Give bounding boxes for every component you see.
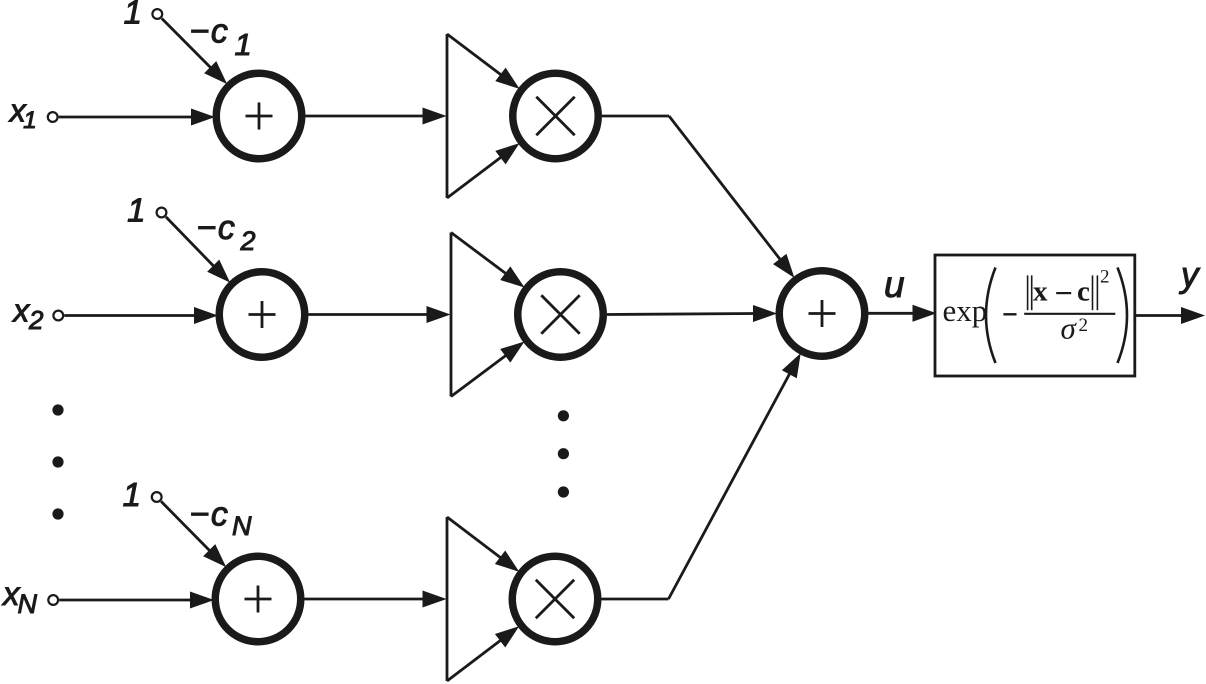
svg-text:1: 1 xyxy=(123,476,141,513)
svg-text:N: N xyxy=(18,589,38,619)
svg-text:−c: −c xyxy=(190,13,230,51)
svg-text:−c: −c xyxy=(190,496,230,534)
svg-text:x: x xyxy=(1033,276,1048,308)
svg-text:1: 1 xyxy=(124,0,142,31)
svg-text:x: x xyxy=(11,292,30,328)
svg-text:exp: exp xyxy=(943,293,988,328)
svg-text:2: 2 xyxy=(1100,267,1110,288)
svg-text:1: 1 xyxy=(23,107,37,134)
svg-text:σ: σ xyxy=(1061,311,1078,346)
svg-text:N: N xyxy=(232,511,252,541)
svg-text:2: 2 xyxy=(240,226,256,256)
svg-text:1: 1 xyxy=(235,27,252,62)
svg-text:−c: −c xyxy=(197,209,237,247)
svg-text:2: 2 xyxy=(1079,315,1089,336)
svg-text:u: u xyxy=(884,264,905,305)
svg-text:1: 1 xyxy=(127,192,145,229)
svg-text:2: 2 xyxy=(28,305,44,335)
svg-text:y: y xyxy=(1179,256,1201,295)
svg-text:c: c xyxy=(1077,276,1090,308)
